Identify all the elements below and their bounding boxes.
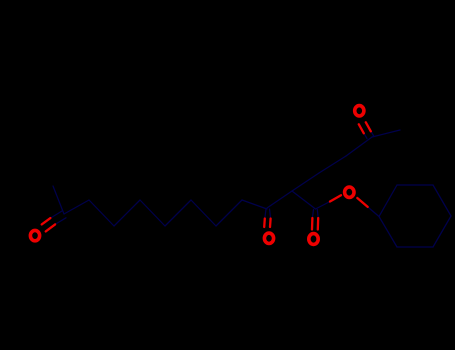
bond alpha C to ester carbonyl C3 <box>292 191 316 209</box>
wire: chain A3 to A4 <box>140 200 165 226</box>
red bond C3-O4 (to ester oxygen) <box>330 195 341 201</box>
oxygen O5 label (acetyl ketone) <box>355 106 364 116</box>
red double bond O1=C (left ketone) <box>42 218 51 224</box>
ring edge R5-R6 <box>397 246 433 248</box>
ring edge R3-R4 <box>433 185 451 216</box>
red double bond C2=O2 (chain ketone) <box>263 219 266 228</box>
methyl on acetyl carbon <box>372 130 400 137</box>
oxygen O4 label (ester bridge) <box>345 187 354 197</box>
oxygen O3 label (ester carbonyl) <box>309 234 318 245</box>
navy half of C3-O4 ester bond <box>316 202 331 210</box>
navy half of C5=O5 <box>364 131 374 139</box>
navy half of O4-C1' bond <box>368 207 379 217</box>
bond C2 to alpha carbon <box>267 191 292 208</box>
wire: chain A2 to A3 <box>114 200 140 226</box>
wire: chain A4 to A5 <box>165 200 191 226</box>
oxygen O2 label (chain ketone) <box>264 233 273 243</box>
wire: chain A7 to ketone C2 <box>242 200 267 209</box>
methyl stub on left ketone carbon <box>53 186 64 214</box>
wire: chain A1 to A2 <box>89 200 114 226</box>
ring edge R4-R5 <box>433 216 451 247</box>
wire: chain C_k to peak A1 <box>64 200 89 214</box>
bond alpha C to side chain B1 <box>292 173 319 191</box>
red double bond O5=C5 (top acetyl) <box>359 124 364 133</box>
navy half of C2=O2 <box>265 209 271 219</box>
red bond O4-C1' (ester oxygen to ring) <box>357 198 367 207</box>
bond B1 to B2 <box>319 156 346 173</box>
wire: chain A6 to A7 <box>216 200 242 226</box>
red double bond C3=O3 (ester carbonyl) <box>311 218 314 230</box>
navy half of C3=O3 <box>312 210 318 219</box>
ring edge R6-C1' <box>379 217 397 248</box>
oxygen O1 label (left ketone) <box>30 230 39 240</box>
bond B2 to acetyl carbon C5 <box>346 137 372 156</box>
ring edge R2-R3 <box>397 184 433 186</box>
cyclohexane ring right: edge C1'-R2 <box>379 185 397 217</box>
wire: chain A5 to A6 <box>191 200 216 226</box>
navy half of C=O at left ketone <box>50 211 66 224</box>
